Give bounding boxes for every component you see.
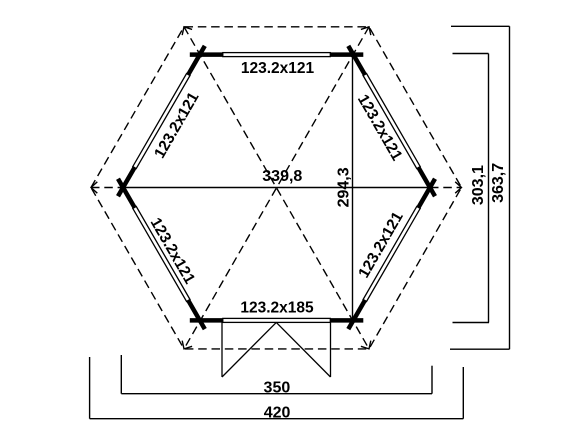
roof outline dashed hexagon xyxy=(91,27,462,349)
horizontal centerline dashed left segment xyxy=(91,187,123,189)
roof hip diagonal TR-BL dashed xyxy=(184,27,369,349)
dimension 303,1 extension top xyxy=(453,53,489,55)
wall bottom: double line body xyxy=(223,318,330,322)
wall lower-left: double line body xyxy=(133,206,190,301)
svg-text:123.2x121: 123.2x121 xyxy=(241,60,315,77)
svg-text:350: 350 xyxy=(264,380,291,397)
svg-text:303,1: 303,1 xyxy=(470,165,487,205)
svg-text:339,8: 339,8 xyxy=(262,168,302,185)
horizontal centerline solid 339,8 chord xyxy=(123,187,430,189)
svg-text:420: 420 xyxy=(264,404,291,421)
dimension 363,7 extension bottom xyxy=(450,348,510,350)
arrowhead bottom-left vertex xyxy=(182,341,192,349)
dimension 420 extension left xyxy=(89,357,91,419)
arrowhead bottom-right vertex xyxy=(361,341,371,349)
arrowhead left vertex xyxy=(91,182,97,193)
dimension 420 line xyxy=(90,418,464,420)
wall lower-left: log end bars xyxy=(188,301,205,330)
wall bottom (door wall): log end bars xyxy=(330,318,363,323)
door right jamb line xyxy=(330,322,332,377)
door right leaf swing xyxy=(276,322,330,377)
wall lower-right: log end bars xyxy=(419,179,436,208)
arrowhead right vertex xyxy=(455,182,461,193)
arrowhead top-left vertex xyxy=(182,27,192,35)
roof hip diagonal TL-BR dashed xyxy=(184,27,369,349)
wall lower-right: double line body xyxy=(363,206,420,301)
wall top: log end bars xyxy=(190,52,223,57)
svg-text:363,7: 363,7 xyxy=(490,163,507,203)
dimension 420 extension right xyxy=(462,367,464,419)
horizontal centerline dashed right segment xyxy=(430,187,462,189)
dimension 350 line xyxy=(121,393,432,395)
dimension 363,7 line xyxy=(509,26,511,349)
arrowhead top-right vertex xyxy=(361,27,371,35)
wall upper-left: log end bars xyxy=(118,168,135,197)
door left leaf swing xyxy=(222,322,276,377)
vertical 294,3 chord line xyxy=(352,55,354,321)
wall upper-left: double line body xyxy=(133,74,190,169)
door left jamb line xyxy=(221,322,223,377)
svg-text:294,3: 294,3 xyxy=(335,167,352,207)
wall upper-right: double line body xyxy=(363,74,420,169)
dimension 303,1 line xyxy=(488,54,490,323)
dimension 350 extension right xyxy=(431,366,433,394)
wall upper-right: log end bars xyxy=(348,46,365,75)
dimension 303,1 extension bottom xyxy=(453,322,490,324)
svg-text:123.2x185: 123.2x185 xyxy=(240,300,314,317)
wall top: double line body xyxy=(223,53,330,57)
dimension 363,7 extension top xyxy=(451,25,510,27)
dimension 350 extension left xyxy=(120,355,122,394)
